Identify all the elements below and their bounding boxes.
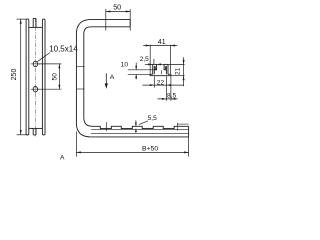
top dim 50: left extension line	[105, 9, 107, 31]
side view: vertical arm outer line with top bend	[76, 19, 91, 123]
section profile: flange right end	[170, 74, 172, 75]
dim 250: extension line top	[17, 18, 27, 20]
svg-text:50: 50	[52, 73, 59, 81]
dim B+50: dimension line	[76, 151, 188, 153]
dim 250: bottom arrow	[20, 130, 22, 135]
svg-text:250: 250	[11, 69, 18, 81]
front view: bottom bend tangent line	[29, 127, 43, 129]
section profile: crown top right segment	[164, 63, 168, 65]
dim B+50: right arrow	[184, 151, 189, 153]
hole 2 (slot 10.5x14)	[33, 87, 37, 92]
dim 8,5: left extension line	[165, 88, 167, 101]
dim 10: upper extension line (lip bottom level)	[128, 69, 156, 71]
dim 21: bottom extension line	[171, 75, 185, 77]
side view: bottom bend outer curve	[76, 123, 90, 137]
dim 22: left extension line	[153, 76, 155, 87]
side view: top hook end cap	[129, 19, 131, 26]
dim 5,5: leader line	[139, 121, 148, 125]
dim 250: top arrow	[20, 19, 22, 24]
dim 41: dimension line	[143, 45, 177, 47]
section profile: left wall outer	[152, 64, 154, 74]
svg-text:50: 50	[113, 2, 121, 11]
svg-text:22: 22	[157, 79, 165, 86]
svg-text:41: 41	[158, 39, 166, 46]
dim 10: upper arrow head	[135, 66, 137, 70]
front view: right wall strip	[42, 19, 45, 135]
front view: vertical dashed centerline	[34, 18, 36, 137]
side view: top hook bottom line	[91, 26, 130, 28]
dim 250: dimension line	[20, 19, 22, 135]
dim 250: extension line bottom	[17, 134, 28, 136]
hole spacing dim 50: extension line from hole 2	[38, 88, 61, 90]
dim 5,5: lower arrow line	[135, 129, 137, 133]
dim 22: right arrow	[166, 84, 171, 86]
hole 1 horizontal center ticks	[31, 63, 40, 65]
svg-text:A: A	[110, 74, 115, 81]
hole spacing dim 50: dimension line	[58, 64, 60, 89]
dim 22: dimension line	[143, 84, 184, 86]
svg-text:2,5: 2,5	[140, 56, 149, 63]
dim 2,5: right arrow tail	[157, 63, 165, 65]
bottom arm: top line with slot notches	[92, 126, 189, 128]
front view: top bend tangent line	[29, 26, 43, 28]
dim 10: lower arrow line	[135, 74, 137, 79]
section profile: crown top left segment	[153, 63, 157, 65]
bottom arm: bottom line	[91, 136, 189, 138]
dim 5,5: upper arrow line	[135, 120, 137, 126]
front view: bottom slot strip	[33, 128, 36, 135]
bottom arm: end tick vertical	[176, 123, 178, 131]
section profile: inner short line	[161, 70, 163, 74]
top dim 50: dimension line	[106, 11, 130, 13]
section profile: right lip	[164, 64, 165, 69]
dim B+50: right extension line	[188, 137, 190, 157]
hole spacing dim 50: top arrow	[58, 64, 60, 68]
dim B+50: left extension line	[75, 132, 77, 157]
svg-text:10: 10	[121, 62, 129, 69]
section cut tick through bottom arm	[105, 122, 107, 131]
side view: bottom bend inner curve	[84, 118, 92, 127]
bottom arm: line 2	[91, 129, 188, 131]
front view: left wall strip	[26, 19, 29, 135]
hole 1 (slot 10.5x14)	[33, 61, 37, 66]
dim 10: lower extension line (flange top level)	[128, 73, 150, 75]
side view: slot tick lower	[76, 88, 84, 90]
dim 5,5: upper arrow head	[135, 123, 137, 127]
label 10,5x14 leader line	[37, 53, 50, 62]
svg-text:10,5x14: 10,5x14	[49, 44, 78, 53]
dim 2,5: left arrow	[148, 63, 153, 65]
svg-text:B+50: B+50	[142, 146, 158, 153]
side view: vertical arm inner line with top bend	[84, 27, 91, 118]
top dim 50: left arrow	[106, 11, 111, 13]
hole spacing dim 50: extension line from hole 1	[38, 63, 61, 65]
dim 41: left arrow	[146, 45, 151, 47]
section arrow A: line	[105, 73, 107, 84]
front view: top slot strip	[33, 18, 36, 27]
hole 2 horizontal center ticks	[31, 88, 40, 90]
dim 21: top extension line	[168, 63, 185, 65]
top dim 50: right extension line	[129, 9, 131, 31]
dim 5,5: lower arrow head	[135, 129, 137, 132]
side view: slot tick upper	[76, 65, 84, 67]
dim 22: left arrow	[150, 84, 155, 86]
section profile: flange left end	[149, 74, 151, 75]
section profile: left wall inner	[153, 66, 155, 74]
dim 10: lower arrow head	[135, 74, 137, 78]
dim 2,5: extension line under text	[153, 59, 155, 65]
section profile: flange bottom	[150, 75, 171, 77]
section profile: right wall outer	[167, 64, 169, 74]
svg-text:5,5: 5,5	[148, 115, 157, 122]
dim 41: right extension line	[170, 45, 172, 74]
dim 2,5: right arrow	[157, 63, 162, 65]
hole spacing dim 50: bottom arrow	[58, 85, 60, 89]
section profile: right wall inner	[165, 66, 167, 74]
dim 21: dimension line	[183, 57, 185, 86]
bottom arm: end cap	[188, 126, 190, 137]
dim 21: top arrow	[183, 60, 185, 65]
section profile: flange top left	[150, 73, 153, 75]
dim 21: bottom arrow	[183, 76, 185, 81]
dim 41: right arrow	[171, 45, 176, 47]
dim 8,5: right arrow	[171, 98, 176, 100]
dim 41: left extension line	[149, 45, 151, 74]
section profile: left lip	[155, 64, 156, 69]
top dim 50: right arrow	[126, 11, 131, 13]
svg-text:21: 21	[175, 67, 182, 75]
section arrow A: arrowhead	[105, 83, 108, 89]
bottom arm: line 3	[91, 133, 189, 135]
bottom arm: end tick horizontal	[177, 123, 188, 125]
dim 8,5: right extension line	[170, 76, 172, 101]
section profile: flange top right	[168, 73, 171, 75]
dim 10: upper arrow line	[135, 63, 137, 70]
dim B+50: left arrow	[76, 151, 81, 153]
svg-text:A: A	[60, 154, 65, 161]
dim 2,5: left arrow tail	[145, 63, 153, 65]
dim 8,5: left arrow	[162, 98, 167, 100]
side view: top hook top line	[92, 18, 131, 20]
svg-text:8,5: 8,5	[167, 93, 176, 100]
dim 8,5: dimension line	[158, 98, 178, 100]
dim 22: right extension line	[165, 76, 167, 87]
